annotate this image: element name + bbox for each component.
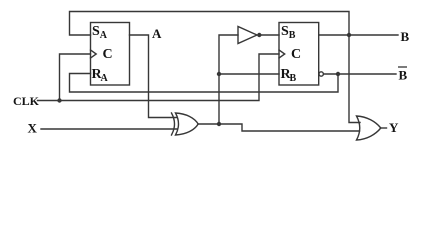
wire: B output line [319, 34, 398, 36]
bubble: U2 inverted output [319, 72, 323, 76]
wire: XOR output [198, 124, 360, 131]
flip-flop U1 box [91, 23, 130, 86]
node: XOR output junction [217, 122, 221, 126]
svg-text:X: X [28, 121, 38, 136]
svg-text:B: B [290, 73, 297, 84]
svg-text:A: A [101, 73, 109, 84]
wire: branch to R_B [219, 73, 279, 75]
svg-text:C: C [291, 47, 301, 62]
svg-text:CLK: CLK [13, 94, 40, 108]
node: B-bar feedback junction [336, 72, 340, 76]
wire: X input to XOR [41, 128, 177, 130]
gate: XOR G1 body [176, 113, 199, 135]
wire: CLK line to U2 clock [38, 54, 280, 101]
node: inverter output dot [257, 33, 261, 37]
gate: XOR G1 extra input arc [172, 113, 175, 135]
node: R_B branch junction [217, 72, 221, 76]
svg-text:A: A [152, 26, 162, 41]
gate: OR G2 body [357, 116, 381, 140]
svg-text:Y: Y [389, 120, 399, 135]
svg-text:A: A [100, 30, 108, 41]
svg-text:S: S [281, 24, 289, 39]
svg-text:B: B [401, 29, 410, 44]
clock wedge U1 [91, 50, 97, 58]
wire: B-bar feedback to R_A [70, 74, 339, 93]
svg-text:S: S [92, 24, 100, 39]
wire: inverter output to S_B [262, 34, 280, 36]
svg-text:B: B [399, 68, 408, 83]
flip-flop U2 box [279, 23, 319, 86]
clock wedge U2 [279, 50, 285, 58]
svg-text:B: B [289, 30, 296, 41]
wire: OR output to Y [381, 127, 387, 129]
node: B junction with rail [347, 33, 351, 37]
wire: XOR output riser up to inverter input [219, 35, 238, 124]
inverter U3 [238, 27, 257, 44]
node: CLK junction [57, 98, 61, 102]
wire: B-bar output line [324, 73, 397, 75]
wire: A output to XOR input riser [130, 35, 178, 118]
svg-text:C: C [103, 47, 113, 62]
wire: CLK branch to U1 clock [60, 54, 91, 101]
wire: top feedback rail from B down to S_A [70, 12, 361, 123]
